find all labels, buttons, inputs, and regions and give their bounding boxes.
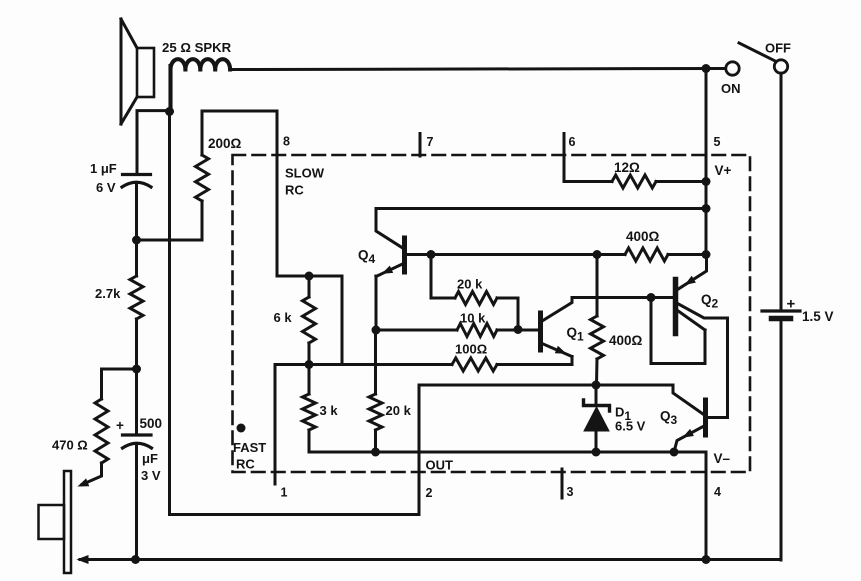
wire speaker node to cap branch xyxy=(137,111,170,174)
label Q4 xyxy=(358,248,376,267)
label 500 xyxy=(140,416,163,431)
resistor 6k xyxy=(303,297,316,343)
speaker LS1 xyxy=(121,19,154,124)
transistor Q3 emitter xyxy=(674,427,703,453)
svg-text:100Ω: 100Ω xyxy=(455,342,487,357)
label pin 6 xyxy=(569,135,576,149)
wire FAST RC rail xyxy=(275,363,452,366)
svg-text:RC: RC xyxy=(285,183,304,198)
resistor 10k xyxy=(457,324,497,337)
wire Q1 emitter to 100 ohm rail xyxy=(497,357,572,365)
wire 400 ohm to V+ node xyxy=(668,253,706,256)
label D1 xyxy=(615,405,631,424)
node 200 ohm bottom junction xyxy=(132,236,141,245)
svg-text:1: 1 xyxy=(281,486,288,500)
svg-text:FAST: FAST xyxy=(233,440,266,455)
label V- xyxy=(714,451,731,466)
svg-text:2: 2 xyxy=(426,486,433,500)
label 100 ohm xyxy=(455,342,487,357)
label 10 k xyxy=(460,311,486,326)
node cap C2 bottom xyxy=(131,555,140,564)
svg-text:12Ω: 12Ω xyxy=(614,160,640,175)
wire pin 8 SLOW RC line xyxy=(276,111,279,276)
resistor 400 ohm vertical xyxy=(591,316,604,359)
battery B1 1.5V positive plate xyxy=(762,309,800,312)
wire 12 ohm to V+ rail xyxy=(656,180,706,183)
svg-text:+: + xyxy=(787,296,796,313)
resistor R1 2.7k xyxy=(130,276,143,319)
resistor 3k leads xyxy=(308,365,311,453)
label 12 ohm xyxy=(614,160,640,175)
transistor Q3 base bar xyxy=(703,400,708,435)
inductor speaker coil 25 ohm xyxy=(171,59,231,112)
IC package dashed outline xyxy=(233,155,751,472)
resistor 20k upper xyxy=(455,292,497,305)
wire 20k feedback drop xyxy=(431,255,455,299)
node 6k top junction xyxy=(305,272,314,281)
svg-text:2.7k: 2.7k xyxy=(95,286,121,301)
wire OFF terminal to battery xyxy=(780,73,783,310)
resistor 20k lower xyxy=(369,394,382,430)
node 400 ohm bottom D1 top xyxy=(592,381,601,390)
svg-text:400Ω: 400Ω xyxy=(609,333,643,348)
transistor Q2 base bar xyxy=(673,280,679,334)
capacitor C1 1uF top plate xyxy=(123,173,151,176)
wire Q4 emitter to 10k rail xyxy=(375,276,378,330)
label 6 k xyxy=(274,310,293,325)
svg-text:3: 3 xyxy=(567,485,574,499)
label pin 5 xyxy=(714,135,721,149)
resistor 12 ohm xyxy=(612,175,656,188)
resistor R1 2.7k leads xyxy=(135,240,138,369)
transistor Q2 emitter xyxy=(678,255,707,290)
node 20k 10k junction xyxy=(514,325,523,334)
microphone element bar xyxy=(64,471,71,573)
label pin 2 xyxy=(426,486,433,500)
svg-text:6: 6 xyxy=(569,135,576,149)
battery B1 negative plate xyxy=(772,316,791,322)
capacitor C1 1uF bottom curved plate xyxy=(122,182,151,187)
svg-text:V+: V+ xyxy=(715,163,732,178)
svg-text:1.5 V: 1.5 V xyxy=(802,309,834,324)
label SLOW RC xyxy=(285,166,325,198)
svg-text:OUT: OUT xyxy=(426,458,454,473)
wire 20k to 10k junction xyxy=(497,298,518,330)
svg-text:7: 7 xyxy=(427,135,434,149)
resistor 400 ohm top xyxy=(625,248,668,261)
svg-text:3 V: 3 V xyxy=(141,468,161,483)
label 3 V xyxy=(141,468,161,483)
wire 20k lower top lead xyxy=(374,330,377,394)
wire 10k to Q1 base xyxy=(497,329,538,332)
resistor 6k leads xyxy=(308,276,311,365)
label cap + xyxy=(116,418,124,433)
wire base rail to 400 ohm xyxy=(431,253,625,256)
switch S1 ON terminal xyxy=(726,62,739,75)
wire junction to 470 ohm xyxy=(102,369,137,399)
svg-text:25 Ω SPKR: 25 Ω SPKR xyxy=(162,40,232,55)
svg-text:4: 4 xyxy=(714,485,721,499)
svg-text:6 V: 6 V xyxy=(96,180,116,195)
svg-text:6.5 V: 6.5 V xyxy=(615,419,646,434)
capacitor C2 500uF top plate xyxy=(123,433,152,436)
label 400 ohm vertical xyxy=(609,333,643,348)
wire 200 ohm bottom lead xyxy=(137,201,203,240)
label V+ xyxy=(715,163,732,178)
pin 6 wire into IC xyxy=(564,134,612,182)
svg-text:470 Ω: 470 Ω xyxy=(52,438,88,453)
node Q4 emitter 10k junction xyxy=(372,326,381,335)
label 470 ohm xyxy=(52,438,88,453)
label OFF xyxy=(765,41,791,56)
svg-text:μF: μF xyxy=(142,451,158,466)
label 2.7k xyxy=(95,286,121,301)
label uF xyxy=(142,451,158,466)
node 20k bottom rail junction xyxy=(371,448,380,457)
resistor 100 ohm xyxy=(452,358,497,371)
label 20 k lower xyxy=(386,403,412,418)
label pin 4 xyxy=(714,485,721,499)
svg-text:6 k: 6 k xyxy=(274,310,293,325)
label 6.5 V xyxy=(615,419,646,434)
wire Q1 collector rail to Q2 base xyxy=(572,296,675,299)
svg-text:3 k: 3 k xyxy=(320,403,339,418)
svg-text:20 k: 20 k xyxy=(457,277,483,292)
svg-text:500: 500 xyxy=(140,416,163,431)
svg-text:200Ω: 200Ω xyxy=(208,136,242,151)
resistor R2 200 ohm xyxy=(196,155,209,201)
arrowhead bottom rail to microphone xyxy=(77,555,89,564)
label 200 ohm xyxy=(208,136,242,151)
label battery + xyxy=(787,296,796,313)
wire 2.7k junction to cap C2 xyxy=(135,369,138,434)
node 12 ohm V+ junction xyxy=(702,177,711,186)
transistor Q2 collector xyxy=(678,304,728,418)
FAST RC node dot xyxy=(237,424,246,433)
label 25 ohm SPKR xyxy=(162,40,232,55)
svg-text:V–: V– xyxy=(714,451,731,466)
wire bottom ground rail xyxy=(80,558,781,561)
transistor Q1 emitter xyxy=(542,344,572,357)
wire pin 2 OUT rail xyxy=(419,384,596,387)
pin 3 stub xyxy=(561,469,564,498)
svg-text:OFF: OFF xyxy=(765,41,791,56)
wire Q3 collector from OUT rail xyxy=(596,385,703,414)
svg-text:400Ω: 400Ω xyxy=(626,229,660,244)
wire Q3 emitter to pin 4 xyxy=(674,451,706,454)
pin 1 wire drop xyxy=(274,365,277,485)
transistor Q1 collector xyxy=(542,298,572,322)
wire Q4 collector rail xyxy=(376,207,706,210)
resistor R3 470 ohm xyxy=(95,399,108,463)
svg-text:ON: ON xyxy=(721,81,741,96)
svg-text:RC: RC xyxy=(236,457,255,472)
node Q3 emitter junction xyxy=(670,448,679,457)
transistor Q4 emitter xyxy=(376,264,404,277)
node Q4 base 20k junction xyxy=(427,250,436,259)
wire Q4 base lead xyxy=(406,253,431,256)
transistor Q2 collector base tie loop xyxy=(651,298,705,364)
wire OUT internal rail xyxy=(309,452,706,560)
switch S1 OFF terminal xyxy=(774,60,787,73)
capacitor C2 500uF bottom curved plate xyxy=(123,443,152,448)
wire 470 ohm to microphone contact xyxy=(82,463,102,485)
wire V+ feed pin 5 vertical xyxy=(705,69,708,255)
label pin 7 xyxy=(427,135,434,149)
svg-text:8: 8 xyxy=(283,135,290,149)
node 2.7k bottom junction xyxy=(132,365,141,374)
node top rail to V+ pin 5 xyxy=(702,64,711,73)
label Q2 xyxy=(701,292,719,311)
label pin 1 xyxy=(281,486,288,500)
label OUT xyxy=(426,458,454,473)
svg-text:5: 5 xyxy=(714,135,721,149)
label pin 3 xyxy=(567,485,574,499)
wire SLOW RC divider top xyxy=(277,276,342,365)
node D1 bottom junction xyxy=(592,448,601,457)
label 3 k xyxy=(320,403,339,418)
pin 7 stub xyxy=(419,134,422,157)
node speaker-coil junction xyxy=(165,107,174,116)
label 1.5 V xyxy=(802,309,834,324)
wire 400 ohm vertical leads xyxy=(595,255,599,386)
label 6 V xyxy=(96,180,116,195)
diode D1 zener 6.5V xyxy=(584,385,610,452)
node pin 4 bottom rail xyxy=(702,555,711,564)
label 400 ohm top xyxy=(626,229,660,244)
label ON xyxy=(721,81,741,96)
wire 10k rail left xyxy=(376,329,457,332)
transistor Q4 base bar xyxy=(402,238,407,272)
node 6k bottom junction xyxy=(305,360,314,369)
node V+ Q2 emitter junction xyxy=(702,250,711,259)
arrowhead 470 ohm mic contact xyxy=(78,478,90,486)
label FAST RC xyxy=(233,440,266,472)
label 1 uF xyxy=(90,161,117,176)
svg-text:20 k: 20 k xyxy=(386,403,412,418)
svg-text:SLOW: SLOW xyxy=(285,166,325,181)
switch S1 arm xyxy=(739,43,776,62)
wire output loop left vertical xyxy=(170,112,420,515)
label 20 k upper xyxy=(457,277,483,292)
wire top rail to switch xyxy=(230,69,725,70)
svg-text:1 μF: 1 μF xyxy=(90,161,117,176)
node 400 ohm vertical top xyxy=(593,250,602,259)
transistor Q4 collector xyxy=(376,209,404,249)
svg-text:+: + xyxy=(116,418,124,433)
wire cap C2 to bottom rail xyxy=(135,446,138,561)
wire 200 ohm top to pin 8 xyxy=(202,111,277,155)
label Q1 xyxy=(567,325,585,344)
transistor Q1 base bar xyxy=(538,313,543,350)
label Q3 xyxy=(660,409,678,428)
wire battery to bottom rail xyxy=(780,321,783,560)
svg-text:10 k: 10 k xyxy=(460,311,486,326)
node Q4 collector rail junction xyxy=(702,204,711,213)
resistor 3k xyxy=(303,394,316,430)
microphone button xyxy=(39,505,65,539)
wire cap C1 to 200 ohm node xyxy=(135,185,138,241)
node Q2 base collector tie xyxy=(647,293,656,302)
wire 20k lower bottom lead xyxy=(374,430,377,452)
label pin 8 xyxy=(283,135,290,149)
